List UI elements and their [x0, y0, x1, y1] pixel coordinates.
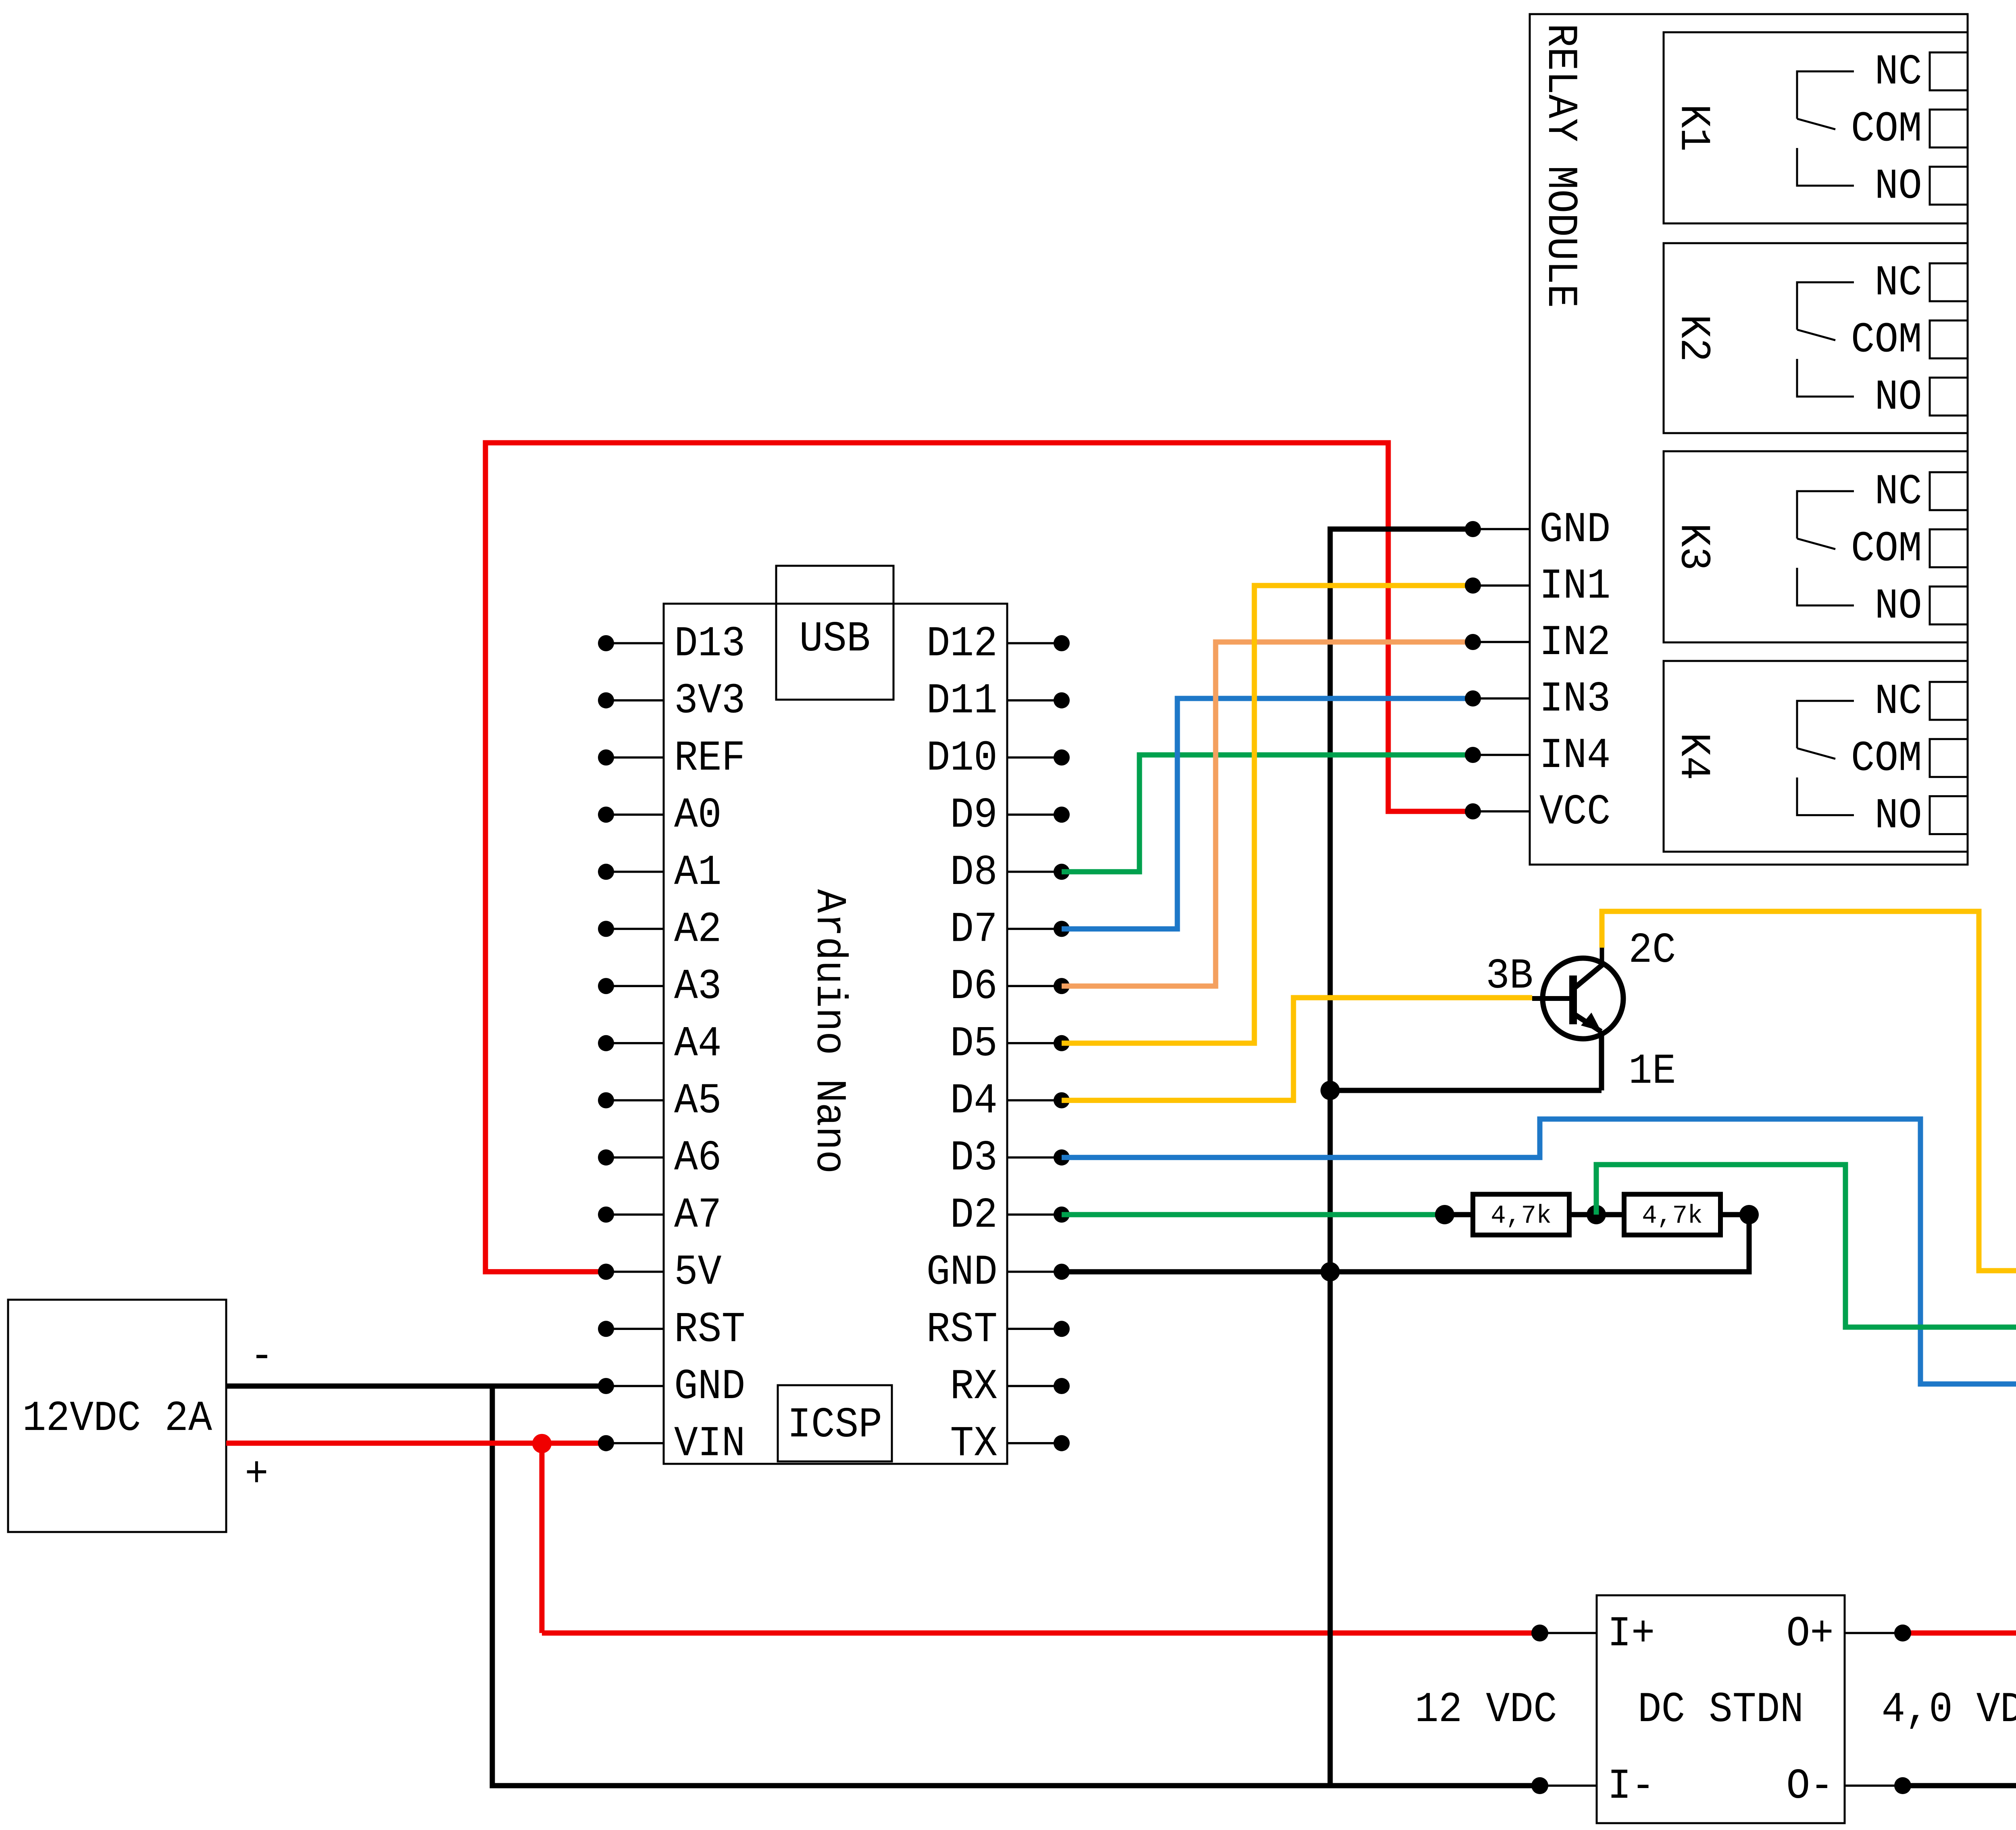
relay K4 contact label COM [1851, 735, 1922, 783]
svg-text:12VDC 2A: 12VDC 2A [23, 1394, 212, 1443]
wire 12V down from junction [539, 1443, 545, 1633]
U1 pin A0 (left) [598, 791, 722, 840]
svg-text:I+: I+ [1608, 1610, 1655, 1658]
relay K1 COM terminal [1930, 110, 1968, 148]
relay K1 box [1664, 32, 1968, 223]
svg-text:Arduino Nano: Arduino Nano [805, 889, 853, 1174]
wire D4 to transistor base (yellow) [1062, 998, 1532, 1101]
Q1 pin label 1E [1629, 1047, 1676, 1096]
relay module pin IN2 [1465, 619, 1610, 667]
wire divider left link [1445, 1212, 1473, 1217]
svg-text:GND: GND [674, 1363, 745, 1411]
U1 pin 5V (left) [598, 1248, 722, 1297]
transistor Q1 body circle [1543, 958, 1623, 1039]
relay K3 contact label COM [1851, 525, 1922, 573]
Q1 collector stroke [1575, 964, 1604, 988]
U3 pin I+ [1531, 1610, 1655, 1658]
U1 pin TX (right) [950, 1420, 1070, 1468]
relay K2 NO terminal [1930, 377, 1968, 415]
svg-text:K1: K1 [1669, 104, 1718, 152]
relay K3 NO terminal [1930, 586, 1968, 624]
Q1 emitter stroke [1575, 1015, 1601, 1032]
junction node divider right [1739, 1205, 1759, 1224]
svg-text:A5: A5 [674, 1077, 722, 1126]
svg-text:K4: K4 [1669, 733, 1718, 780]
U1 pin 3V3 (left) [598, 677, 745, 725]
U3 pin O- [1786, 1762, 1911, 1811]
wire 12V to DC STDN I+ [542, 1630, 1540, 1636]
svg-text:D3: D3 [950, 1134, 998, 1182]
relay K4 contact label NO [1874, 792, 1922, 840]
svg-text:O+: O+ [1786, 1610, 1834, 1658]
wire divider right link [1720, 1212, 1749, 1217]
U1 pin A7 (left) [598, 1191, 722, 1240]
relay K3 COM terminal [1930, 529, 1968, 567]
U1 pin A5 (left) [598, 1077, 722, 1126]
relay K4 NC terminal [1930, 682, 1968, 720]
svg-text:USB: USB [799, 615, 870, 663]
svg-text:2C: 2C [1629, 926, 1676, 975]
svg-text:COM: COM [1851, 735, 1922, 783]
resistor R2 4,7k [1624, 1194, 1720, 1235]
U1 pin REF (left) [598, 734, 745, 782]
U1 pin GND (right) [927, 1248, 1070, 1297]
svg-text:4,7k: 4,7k [1491, 1202, 1552, 1231]
Q1 pin label 2C [1629, 926, 1676, 975]
svg-text:D9: D9 [950, 791, 998, 840]
PS1 plus label [245, 1451, 269, 1499]
svg-text:RST: RST [927, 1305, 998, 1354]
svg-text:DC STDN: DC STDN [1638, 1686, 1804, 1734]
relay module pin IN1 [1465, 562, 1610, 611]
relay K2 box [1664, 243, 1968, 433]
wire 5V Arduino 5V to relay VCC [485, 443, 1473, 1280]
U1 pin D3 (right) [950, 1134, 1070, 1182]
junction node divider left [1435, 1205, 1454, 1224]
U1 pin D11 (right) [927, 677, 1070, 725]
wire D3 to SIM800L TXD (blue) [1062, 1119, 2016, 1384]
Q1 emitter arrow [1581, 1013, 1601, 1031]
svg-text:NC: NC [1874, 48, 1922, 96]
wire Q1 emitter to GND trunk [1330, 1088, 1602, 1093]
converter U3 DC STDN [1597, 1595, 1845, 1823]
svg-text:NO: NO [1874, 792, 1922, 840]
svg-text:COM: COM [1851, 316, 1922, 365]
U1 pin D6 (right) [950, 963, 1070, 1011]
svg-text:RST: RST [674, 1305, 745, 1354]
relay module pin IN3 [1465, 675, 1610, 723]
PS1 minus label [250, 1332, 274, 1381]
wire divider mid link [1569, 1212, 1624, 1217]
svg-text:A1: A1 [674, 848, 722, 897]
svg-text:12 VDC: 12 VDC [1415, 1686, 1557, 1734]
U1 pin D5 (right) [950, 1020, 1070, 1068]
svg-text:NC: NC [1874, 677, 1922, 726]
svg-text:REF: REF [674, 734, 745, 782]
svg-text:O-: O- [1786, 1762, 1834, 1811]
svg-text:IN1: IN1 [1539, 562, 1610, 611]
wire divider mid to SIM800L RXD (green) [1596, 1165, 2016, 1327]
relay K2 contact label NC [1874, 259, 1922, 307]
svg-text:D5: D5 [950, 1020, 998, 1068]
wire Q1 collector to SIM800L RST (yellow) [1602, 911, 2016, 1271]
relay K1 label [1669, 104, 1718, 152]
U1 pin D4 (right) [950, 1077, 1070, 1126]
svg-text:K2: K2 [1669, 315, 1718, 362]
junction GND trunk / emitter wire [1320, 1081, 1340, 1100]
svg-text:NC: NC [1874, 259, 1922, 307]
relay K2 contact label COM [1851, 316, 1922, 365]
svg-text:3V3: 3V3 [674, 677, 745, 725]
relay K4 contact label NC [1874, 677, 1922, 726]
wire GND O- to SIM800L GND [1903, 1440, 2016, 1786]
svg-text:A4: A4 [674, 1020, 722, 1068]
svg-text:1E: 1E [1629, 1047, 1676, 1096]
U1 pin RST (left) [598, 1305, 745, 1354]
relay K3 switch symbol [1797, 491, 1854, 605]
relay K2 COM terminal [1930, 321, 1968, 358]
Q1 collector lead [1600, 947, 1604, 965]
junction node divider mid [1587, 1205, 1606, 1224]
arduino U1 Arduino Nano body [664, 604, 1007, 1464]
svg-text:VIN: VIN [674, 1420, 745, 1468]
relay K3 label [1669, 523, 1718, 571]
Q1 emitter lead [1599, 1031, 1604, 1090]
svg-text:TX: TX [950, 1420, 998, 1468]
relay module pin GND [1465, 506, 1610, 554]
relay module A1 outline [1530, 14, 1968, 865]
relay K3 NC terminal [1930, 472, 1968, 510]
U1 pin A4 (left) [598, 1020, 722, 1068]
wire Arduino GND to resistor junction [1062, 1215, 1749, 1272]
label 12 VDC [1415, 1686, 1557, 1734]
wire 4V O+ to SIM800L VCC (red) [1894, 1206, 2016, 1642]
relay K2 contact label NO [1874, 373, 1922, 421]
relay K2 switch symbol [1797, 282, 1854, 396]
resistor R1 4,7k [1473, 1194, 1569, 1235]
U1 pin A3 (left) [598, 963, 722, 1011]
U1 pin D7 (right) [950, 905, 1070, 954]
power supply PS1 12VDC 2A [8, 1300, 226, 1532]
U1 pin RX (right) [950, 1363, 1070, 1411]
relay K2 NC terminal [1930, 263, 1968, 301]
junction 12V VIN branch [532, 1434, 552, 1453]
U1 pin VIN (left) [598, 1420, 745, 1468]
svg-text:IN2: IN2 [1539, 619, 1610, 667]
relay K1 switch symbol [1797, 71, 1854, 186]
svg-text:RX: RX [950, 1363, 998, 1411]
svg-text:IN3: IN3 [1539, 675, 1610, 723]
wire D2 to resistor divider (green) [1062, 1212, 1445, 1217]
svg-text:D13: D13 [674, 620, 745, 668]
svg-text:VCC: VCC [1539, 788, 1610, 836]
Q1 base bar [1569, 975, 1577, 1024]
U1 pin RST (right) [927, 1305, 1070, 1354]
svg-text:GND: GND [927, 1248, 998, 1297]
relay module pin IN4 [1465, 732, 1610, 780]
U1 pin D10 (right) [927, 734, 1070, 782]
U3 pin O+ [1786, 1610, 1911, 1658]
svg-text:A6: A6 [674, 1134, 722, 1182]
relay K4 switch symbol [1797, 701, 1854, 815]
svg-text:D6: D6 [950, 963, 998, 1011]
svg-text:NC: NC [1874, 468, 1922, 516]
U1 pin A2 (left) [598, 905, 722, 954]
svg-text:A7: A7 [674, 1191, 722, 1240]
svg-text:A3: A3 [674, 963, 722, 1011]
U1 pin D9 (right) [950, 791, 1070, 840]
U1 pin GND (left) [598, 1363, 745, 1411]
relay K3 contact label NO [1874, 582, 1922, 630]
svg-text:5V: 5V [674, 1248, 722, 1297]
wire D7 to relay IN3 (blue) [1062, 698, 1473, 929]
svg-text:4,0 VDC: 4,0 VDC [1882, 1686, 2016, 1734]
junction GND trunk / Arduino GND wire [1320, 1262, 1340, 1282]
Q1 base lead [1532, 996, 1570, 1001]
relay K1 contact label NO [1874, 162, 1922, 211]
wire D5 to relay IN1 (yellow) [1062, 586, 1473, 1043]
Q1 pin label 3B [1486, 952, 1533, 1000]
label 4,0 VDC [1882, 1686, 2016, 1734]
svg-text:D11: D11 [927, 677, 998, 725]
svg-text:COM: COM [1851, 525, 1922, 573]
relay K3 contact label NC [1874, 468, 1922, 516]
svg-text:I-: I- [1608, 1762, 1655, 1811]
wire GND trunk vertical [1330, 529, 1473, 1786]
svg-text:D2: D2 [950, 1191, 998, 1240]
svg-text:NO: NO [1874, 162, 1922, 211]
U3 pin I- [1531, 1762, 1655, 1811]
svg-text:D10: D10 [927, 734, 998, 782]
relay K1 contact label COM [1851, 105, 1922, 154]
wire D6 to relay IN2 (orange) [1062, 642, 1473, 986]
svg-text:A2: A2 [674, 905, 722, 954]
wire 12V PS1+ to Arduino VIN pin [226, 1440, 606, 1446]
svg-text:-: - [250, 1332, 274, 1381]
relay K2 label [1669, 315, 1718, 362]
svg-text:D12: D12 [927, 620, 998, 668]
svg-text:4,7k: 4,7k [1642, 1202, 1703, 1231]
wire GND PS1- to Arduino GND pin [226, 1384, 606, 1389]
relay module label RELAY MODULE [1536, 23, 1585, 308]
svg-text:A0: A0 [674, 791, 722, 840]
svg-text:NO: NO [1874, 582, 1922, 630]
relay K4 NO terminal [1930, 796, 1968, 834]
U1 USB connector box [776, 566, 893, 700]
relay K1 NC terminal [1930, 52, 1968, 90]
relay K1 contact label NC [1874, 48, 1922, 96]
svg-text:NO: NO [1874, 373, 1922, 421]
U1 label Arduino Nano [805, 889, 853, 1174]
U1 pin D12 (right) [927, 620, 1070, 668]
svg-text:GND: GND [1539, 506, 1610, 554]
svg-text:+: + [245, 1451, 269, 1499]
svg-text:IN4: IN4 [1539, 732, 1610, 780]
svg-text:K3: K3 [1669, 523, 1718, 571]
U1 pin A1 (left) [598, 848, 722, 897]
svg-text:D8: D8 [950, 848, 998, 897]
svg-text:D7: D7 [950, 905, 998, 954]
svg-text:COM: COM [1851, 105, 1922, 154]
relay K1 NO terminal [1930, 167, 1968, 204]
svg-text:ICSP: ICSP [787, 1401, 882, 1449]
wire GND vertical drop and bottom rail to DC STDN I- [492, 1386, 1540, 1786]
U1 pin D8 (right) [950, 848, 1070, 897]
wire D8 to relay IN4 (green) [1062, 755, 1473, 872]
U1 pin D13 (left) [598, 620, 745, 668]
U1 ICSP connector box [778, 1385, 892, 1461]
U1 pin A6 (left) [598, 1134, 722, 1182]
relay module pin VCC [1465, 788, 1610, 836]
U1 pin D2 (right) [950, 1191, 1070, 1240]
relay K3 box [1664, 451, 1968, 642]
relay K4 label [1669, 733, 1718, 780]
svg-text:RELAY MODULE: RELAY MODULE [1536, 23, 1585, 308]
relay K4 COM terminal [1930, 739, 1968, 777]
svg-text:D4: D4 [950, 1077, 998, 1126]
svg-text:3B: 3B [1486, 952, 1533, 1000]
relay K4 box [1664, 661, 1968, 852]
